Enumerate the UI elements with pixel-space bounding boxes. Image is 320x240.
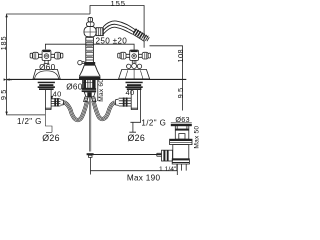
right handle cross — [118, 50, 151, 60]
arrowhead at bottom of left dimension line — [5, 112, 8, 115]
pop-up rod clevis — [87, 153, 94, 155]
pop-up rod horizontal — [94, 154, 162, 156]
right handle skirt escutcheon — [119, 69, 150, 79]
right valve inlet shank tube — [131, 90, 137, 110]
waste nut — [170, 139, 192, 144]
right handle knob circles front view — [127, 64, 131, 68]
svg-text:Max 50: Max 50 — [193, 126, 200, 149]
right flexible hose — [92, 101, 116, 121]
left valve locknut below deck — [38, 82, 55, 84]
svg-text:1/2" G: 1/2" G — [17, 117, 42, 126]
dimension line Max 190 (bottom horizontal) — [90, 158, 177, 176]
hose manifold — [84, 92, 95, 97]
svg-text:185: 185 — [0, 36, 8, 51]
waste flange — [171, 122, 192, 124]
waste lower body — [173, 145, 189, 159]
svg-text:40: 40 — [53, 90, 62, 99]
leader to right diameter 26 label — [129, 122, 136, 132]
left hose connector stub — [84, 97, 89, 102]
left flexible hose — [65, 100, 86, 118]
spout collar nut — [96, 28, 103, 36]
svg-text:Ø26: Ø26 — [42, 133, 60, 143]
left valve inlet shank tube — [45, 90, 51, 110]
right valve elbow fitting — [119, 98, 131, 106]
dimension line 185/95 (left vertical) — [7, 14, 90, 115]
spout tip aerator — [133, 29, 148, 41]
svg-text:Max 60: Max 60 — [98, 79, 105, 102]
svg-text:Ø26: Ø26 — [128, 133, 146, 143]
svg-text:250 ±20: 250 ±20 — [96, 37, 128, 46]
left handle dome escutcheon — [33, 69, 60, 79]
column bell escutcheon — [84, 64, 95, 66]
svg-text:Max 190: Max 190 — [127, 174, 161, 183]
pop-up rod vertical — [90, 97, 91, 152]
column base nut — [84, 62, 95, 65]
left valve elbow fitting — [51, 99, 60, 106]
right hose connector stub — [91, 97, 96, 102]
deck-level tick on left dimension line — [7, 79, 12, 81]
arrowhead at deck on left dimension line — [7, 78, 10, 80]
deck line (countertop) — [7, 78, 187, 80]
leader line across handle tops — [45, 44, 134, 50]
waste tail tube — [177, 164, 186, 171]
waste tail nut — [172, 159, 189, 164]
spout finial knob — [88, 17, 92, 22]
svg-text:95: 95 — [0, 87, 8, 100]
waste upper body — [175, 130, 189, 139]
dimension line Max 60 (deck thickness) — [97, 80, 99, 101]
spout ball joint — [84, 26, 96, 37]
leader to left diameter 26 label — [45, 110, 52, 133]
left handle cross — [30, 50, 63, 60]
right valve locknut below deck — [126, 82, 143, 84]
svg-text:Ø60: Ø60 — [66, 83, 83, 92]
waste neck — [175, 125, 189, 130]
svg-text:95: 95 — [176, 86, 185, 99]
arrowhead on left 40 dimension — [51, 96, 54, 99]
dimension line 40 / 1-2 inch (right shank) — [130, 87, 140, 122]
dimension line 40 (left shank) — [51, 97, 53, 99]
svg-text:1/2" G: 1/2" G — [141, 118, 166, 127]
pop-up lift knob — [78, 60, 82, 64]
extension line below clevis — [89, 157, 91, 170]
dimension line 108/95 (right vertical, from spout outlet) — [150, 46, 183, 111]
left handle neck — [44, 60, 49, 63]
svg-text:1 1/4": 1 1/4" — [159, 166, 177, 173]
right handle neck — [132, 60, 136, 63]
column locknut — [82, 88, 96, 90]
column ribbed body — [86, 37, 94, 60]
svg-text:108: 108 — [176, 49, 185, 63]
column threaded shank below deck — [83, 79, 96, 88]
spout tube — [103, 21, 136, 30]
arrowhead at top of left dimension line — [5, 14, 8, 17]
rod clamp on waste — [162, 150, 173, 161]
clamp screw — [157, 153, 162, 156]
dimension line 155 (spout reach, top) — [90, 6, 144, 48]
svg-text:155: 155 — [111, 0, 126, 8]
